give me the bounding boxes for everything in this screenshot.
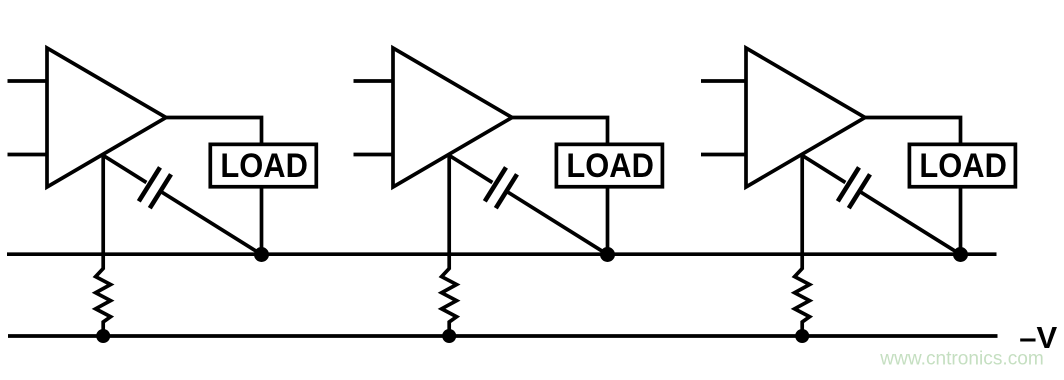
wire U1 inverting input bbox=[8, 153, 48, 157]
load box LOAD3 bbox=[909, 144, 1015, 186]
svg-text:LOAD: LOAD bbox=[566, 147, 654, 185]
wire U2 output to LOAD2 bbox=[512, 118, 608, 145]
wire U1 non-inverting input bbox=[8, 79, 48, 83]
output node junction dot (stage 1) bbox=[254, 247, 269, 262]
junction dot R1 to -V bus bbox=[96, 329, 110, 343]
op-amp U3 bbox=[746, 48, 865, 187]
capacitor C3 bbox=[838, 167, 870, 208]
wire C1 upper lead (from U1 summing point) bbox=[103, 155, 146, 182]
wire U2 feedback tap down to R2 bbox=[447, 155, 451, 269]
load box LOAD1 bbox=[210, 144, 316, 186]
wire U3 feedback tap down to R3 bbox=[800, 155, 804, 269]
wire U1 feedback tap down to R1 bbox=[101, 155, 105, 269]
svg-text:LOAD: LOAD bbox=[919, 147, 1007, 185]
resistor R1 bbox=[96, 269, 111, 337]
wire LOAD2 to output node bbox=[606, 186, 610, 255]
-V bus bbox=[8, 334, 998, 338]
resistor R2 bbox=[442, 269, 457, 337]
svg-text:LOAD: LOAD bbox=[220, 147, 308, 185]
wire C3 lower lead to output node bbox=[861, 192, 960, 254]
wire U2 non-inverting input bbox=[354, 79, 394, 83]
wire U3 inverting input bbox=[701, 153, 746, 157]
capacitor C1 bbox=[139, 167, 171, 208]
wire LOAD3 to output node bbox=[959, 186, 963, 255]
wire C2 upper lead (from U2 summing point) bbox=[449, 155, 492, 182]
wire U3 output to LOAD3 bbox=[865, 118, 961, 145]
resistor R3 bbox=[795, 269, 810, 337]
wire U2 inverting input bbox=[354, 153, 394, 157]
wire U1 output to LOAD1 bbox=[166, 118, 262, 145]
junction dot R3 to -V bus bbox=[795, 329, 809, 343]
output node junction dot (stage 2) bbox=[600, 247, 615, 262]
wire U3 non-inverting input bbox=[701, 79, 746, 83]
wire LOAD1 to output node bbox=[260, 186, 264, 255]
capacitor C2 bbox=[485, 167, 517, 208]
wire C1 lower lead to output node bbox=[162, 192, 261, 254]
op-amp U2 bbox=[393, 48, 512, 187]
op-amp U1 bbox=[47, 48, 166, 187]
svg-text:www.cntronics.com: www.cntronics.com bbox=[879, 349, 1044, 370]
top bus (output/common rail) bbox=[7, 252, 997, 256]
load box LOAD2 bbox=[556, 144, 662, 186]
output node junction dot (stage 3) bbox=[953, 247, 968, 262]
wire C2 lower lead to output node bbox=[508, 192, 607, 254]
wire C3 upper lead (from U3 summing point) bbox=[802, 155, 845, 182]
junction dot R2 to -V bus bbox=[442, 329, 456, 343]
